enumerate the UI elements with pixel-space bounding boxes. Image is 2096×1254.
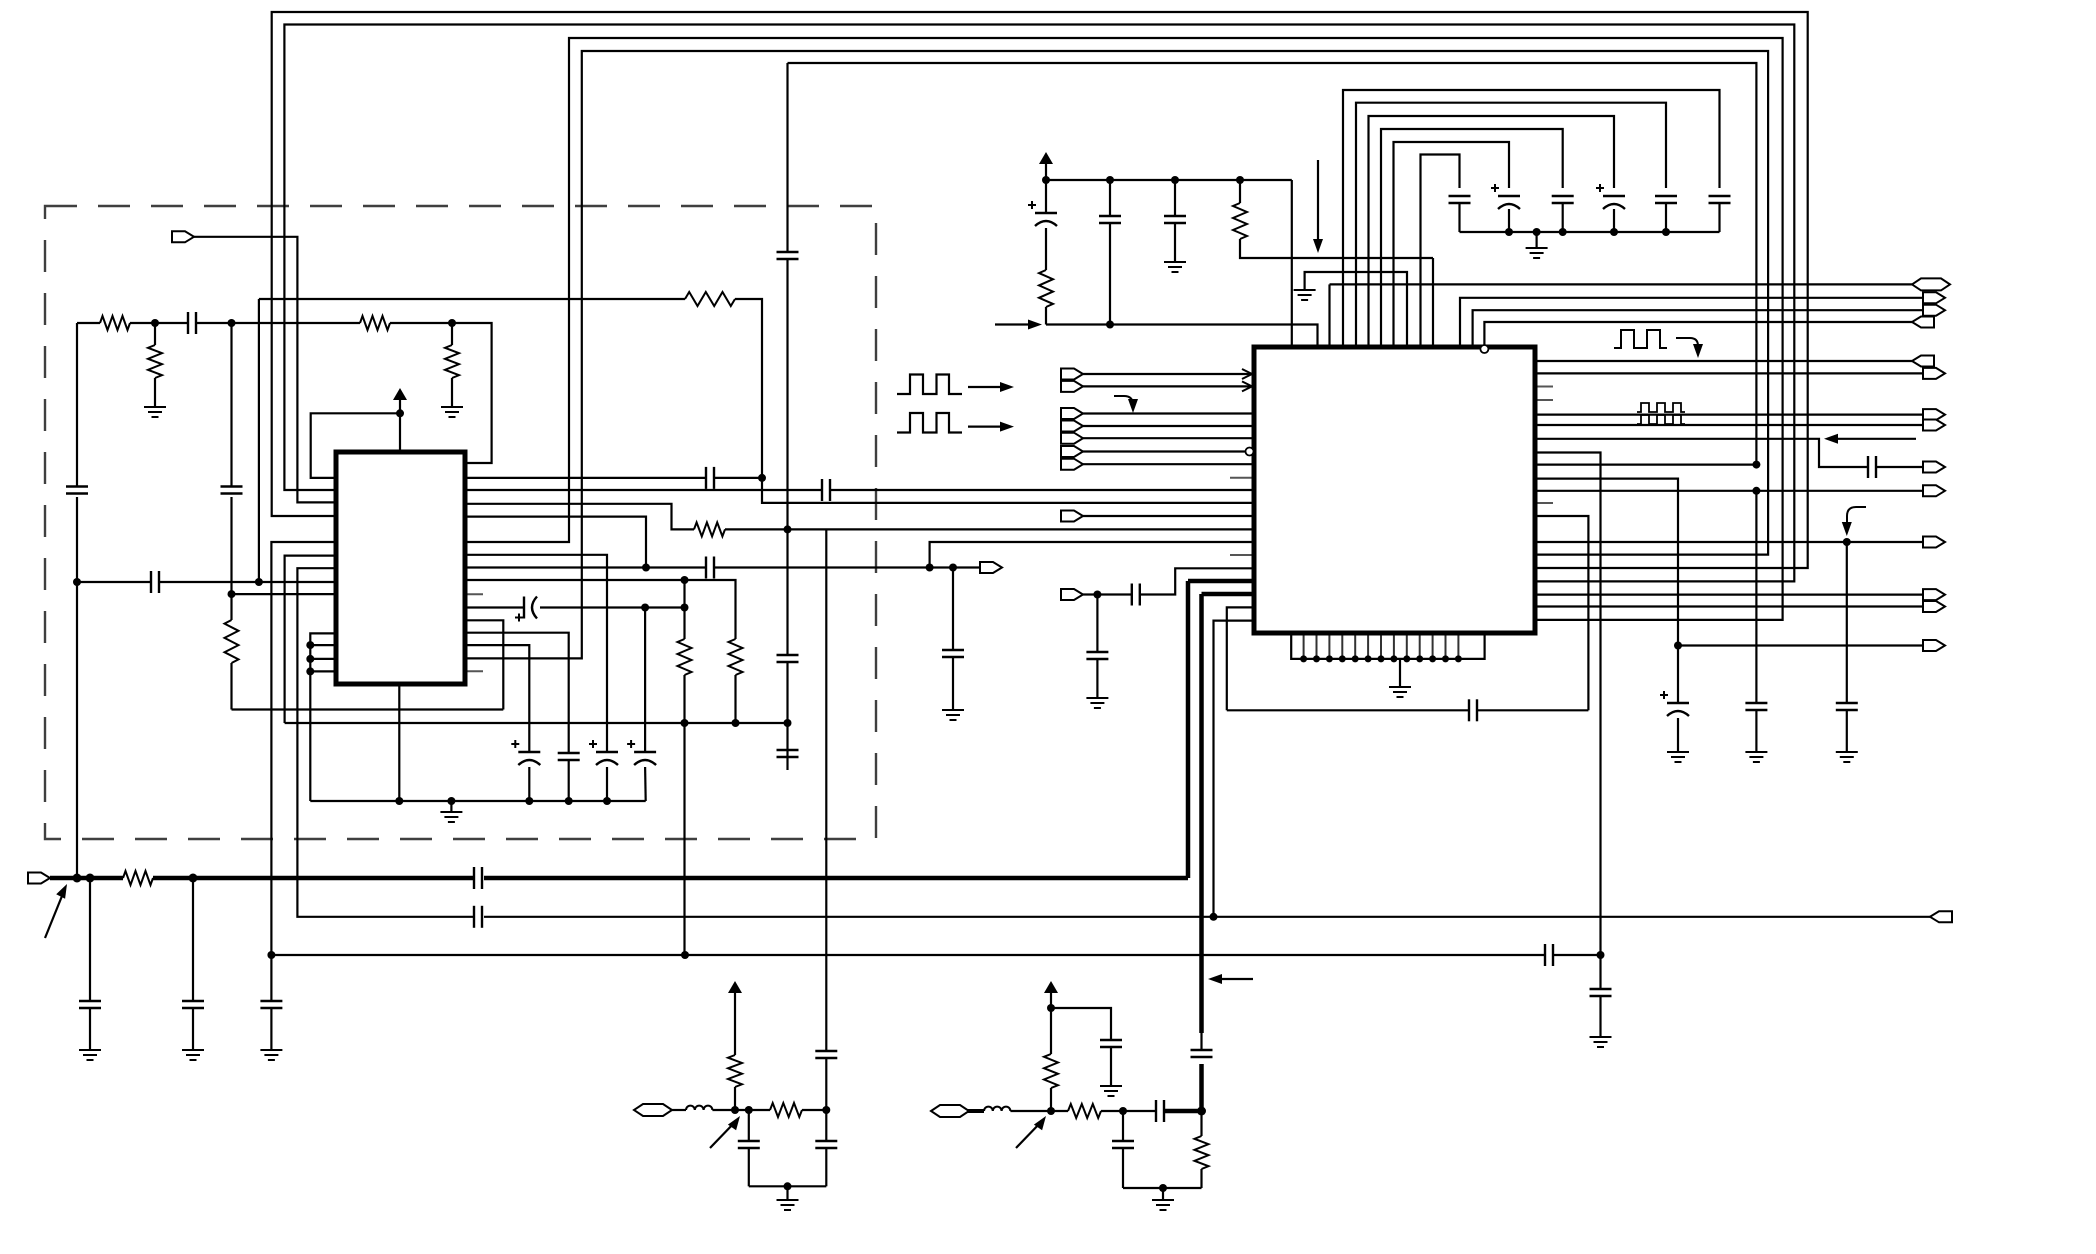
resistor R1046 bbox=[1039, 228, 1053, 325]
wire hex out bbox=[1330, 283, 1913, 285]
annotation squarewave4b bbox=[1637, 415, 1685, 424]
wire pin671 left bbox=[310, 670, 336, 672]
wire bbox=[1083, 385, 1254, 387]
resistor R1240 bbox=[1233, 180, 1433, 258]
node dot bbox=[1171, 176, 1179, 184]
wire cap loop b bbox=[1356, 103, 1666, 347]
wire cap gnd 193 bbox=[182, 878, 204, 1060]
capacitor C826b bbox=[815, 1141, 837, 1148]
wire power to IC1 bbox=[399, 413, 401, 452]
node dot bbox=[926, 564, 934, 572]
wire bbox=[671, 1109, 686, 1111]
node dot bbox=[447, 797, 455, 805]
connector flag main input bbox=[28, 873, 50, 884]
wire bbox=[1083, 450, 1246, 452]
IC2 left pin stub bbox=[1230, 554, 1254, 556]
ground bbox=[144, 407, 166, 417]
wire bbox=[528, 767, 530, 801]
capacitor Cc el bbox=[1596, 184, 1625, 232]
thick wire segment bbox=[484, 876, 1188, 881]
node dot bbox=[565, 797, 573, 805]
wire bbox=[1083, 437, 1254, 439]
resistor R_X2 bbox=[1044, 1008, 1058, 1111]
wire pin659 left bbox=[310, 658, 336, 660]
annotation arrow X2 bbox=[1016, 1116, 1046, 1148]
wire cap gnd 1600 bbox=[1590, 955, 1612, 1047]
wire out 297 bbox=[1460, 298, 1923, 347]
wire pin645 left bbox=[310, 644, 336, 646]
power arrow VCC1 bbox=[393, 388, 407, 413]
IC2 bottom pin bbox=[1378, 633, 1385, 662]
node dot bbox=[1610, 228, 1618, 236]
connector flag bbox=[1923, 462, 1945, 473]
capacitor C582 bbox=[151, 571, 159, 593]
wire loop3 IC1 pin to IC2 pin bbox=[465, 38, 1783, 620]
capacitor C467 bbox=[1868, 456, 1876, 478]
wire vertical 685 lower bbox=[683, 723, 685, 955]
resistor R_in1 bbox=[100, 316, 130, 330]
capacitor C826a bbox=[815, 1051, 837, 1058]
node dot bbox=[784, 1182, 792, 1190]
connector flag bbox=[1923, 640, 1945, 651]
wire cap gnd 90 bbox=[79, 878, 101, 1060]
wire IC2 top pin 1433 bbox=[1432, 258, 1434, 347]
wire bbox=[952, 657, 954, 710]
node dot bbox=[681, 719, 689, 727]
connector flag input bbox=[1061, 446, 1083, 457]
node dot bbox=[1505, 228, 1513, 236]
wire bottom bus bbox=[1291, 633, 1484, 659]
wire row 582 with cap bbox=[77, 581, 336, 583]
wire pin503 to resistor row bbox=[465, 504, 694, 530]
node dot bbox=[73, 578, 81, 586]
wire gnd rail X2 bbox=[1123, 1187, 1202, 1189]
IC2 right pin stub bbox=[1535, 386, 1553, 388]
thick wire bbox=[1164, 1109, 1202, 1114]
capacitor C_loop5 on vertical bbox=[777, 63, 799, 529]
capacitor C607b bbox=[589, 740, 618, 765]
node dot bbox=[1843, 538, 1851, 546]
wire row 299 bbox=[259, 299, 762, 478]
node dot bbox=[1533, 228, 1541, 236]
wire loop5 top rail bbox=[788, 63, 1757, 465]
connector flag bbox=[1923, 368, 1945, 379]
node dot bbox=[189, 874, 198, 883]
wire IC2 top pin 1329 bbox=[1328, 284, 1330, 347]
wire bbox=[1101, 1110, 1156, 1112]
connector hexflag X1 bbox=[634, 1104, 672, 1116]
wire pin555 left bbox=[285, 556, 336, 723]
connector flag bbox=[1923, 601, 1945, 612]
resistor R878 bbox=[123, 871, 153, 885]
connector flag bbox=[1923, 589, 1945, 600]
power arrow X2 bbox=[1044, 981, 1058, 1008]
ground bbox=[1294, 290, 1316, 300]
wire pin594 resistor bbox=[232, 593, 337, 595]
capacitor C710 bbox=[1469, 699, 1477, 721]
wire loop4 IC1 pin to IC2 pin bbox=[465, 51, 1768, 658]
wire pin568 left bbox=[297, 568, 474, 917]
thick wire segment bbox=[153, 876, 474, 881]
capacitor Cf bbox=[1449, 196, 1471, 232]
wire out 606 bbox=[1535, 605, 1923, 607]
annotation arrow left bbox=[1824, 434, 1916, 444]
annotation hook arrow bbox=[1114, 396, 1138, 413]
capacitor Cb bbox=[1655, 196, 1677, 232]
wire pin555 down bbox=[465, 555, 607, 752]
node dot bbox=[86, 874, 95, 883]
pin circle U2 left bbox=[1246, 448, 1254, 456]
node dot bbox=[1047, 1107, 1055, 1115]
IC2 bottom pin bbox=[1339, 633, 1346, 662]
wire flag to cap bbox=[1083, 568, 1254, 594]
wire bbox=[749, 1109, 827, 1111]
annotation arrow bbox=[968, 382, 1014, 392]
node dot bbox=[395, 797, 403, 805]
node dot bbox=[151, 319, 159, 327]
IC2 bottom pin bbox=[1429, 633, 1436, 662]
ground cap rail bbox=[1526, 232, 1548, 258]
pin circle U2 top bbox=[1480, 345, 1488, 353]
annotation arrow bbox=[968, 422, 1014, 432]
annotation arrow bbox=[45, 884, 67, 938]
thick vertical to IC2 bbox=[1186, 581, 1191, 878]
capacitor C478 bbox=[706, 467, 714, 489]
connector hexflag out bbox=[1912, 278, 1950, 290]
IC2 bottom pin bbox=[1365, 633, 1372, 662]
connector flag out1 bbox=[980, 562, 1002, 573]
wire row 607 electrolytic bbox=[465, 606, 685, 608]
connector flag input bbox=[1061, 433, 1083, 444]
node dot bbox=[681, 576, 689, 584]
connector flag input bbox=[1061, 421, 1083, 432]
wire out 478 jog bbox=[1535, 479, 1678, 703]
connector flag bbox=[1923, 420, 1945, 431]
node dot bbox=[1106, 321, 1114, 329]
wire cap gnd 1756 bbox=[1745, 491, 1767, 762]
capacitor Ca bbox=[1709, 196, 1731, 232]
annotation squarewave4a bbox=[1637, 403, 1685, 412]
node dot bbox=[1236, 176, 1244, 184]
node dot bbox=[525, 797, 533, 805]
thick wire bbox=[967, 1109, 984, 1113]
wire cap loop f bbox=[1421, 155, 1460, 348]
annotation hook arrow bbox=[1842, 507, 1866, 536]
capacitor C1046el bbox=[1028, 180, 1057, 226]
wire pin620 jog bbox=[1214, 621, 1255, 917]
wire out 373 bbox=[1535, 372, 1923, 374]
node dot bbox=[1752, 461, 1760, 469]
annotation hook arrow bbox=[1676, 338, 1703, 358]
wire pin633 down bbox=[465, 633, 569, 752]
ground X1 bbox=[777, 1186, 799, 1210]
node dot bbox=[306, 641, 314, 649]
node dot bbox=[306, 667, 314, 675]
wire vertical 645 bbox=[644, 608, 646, 753]
dashed analog-section boundary box bbox=[45, 206, 876, 839]
thick wire pin594 bbox=[1202, 594, 1255, 1033]
IC2 right pin stub bbox=[1535, 502, 1553, 504]
wire bbox=[644, 767, 647, 801]
IC2 bottom pin bbox=[1313, 633, 1320, 662]
wire left vertical x77 bbox=[76, 323, 78, 878]
wire row 916 bbox=[484, 916, 1930, 918]
connector flag input bbox=[1061, 459, 1083, 470]
wire bbox=[1083, 373, 1254, 375]
wire pin542 left bbox=[271, 542, 336, 955]
node dot bbox=[1662, 228, 1670, 236]
wire cap loop a bbox=[1343, 90, 1720, 347]
wire vertical 258 bbox=[258, 299, 260, 582]
resistor R_X2b bbox=[1068, 1104, 1101, 1118]
power arrow VCC2 bbox=[1039, 152, 1053, 180]
IC2 bottom pin bbox=[1455, 633, 1462, 662]
node dot bbox=[1093, 591, 1101, 599]
thick wire IC2 pin581 bbox=[1188, 579, 1254, 584]
IC2 bottom pin bbox=[1300, 633, 1307, 662]
wire out 425 bbox=[1535, 424, 1923, 426]
wire bbox=[1083, 463, 1254, 465]
wire out 452 long bbox=[1535, 453, 1601, 956]
resistor R_X1b bbox=[770, 1103, 802, 1117]
capacitor C953 bbox=[942, 650, 964, 657]
capacitor C788a bbox=[777, 655, 799, 662]
wire bbox=[712, 1109, 748, 1111]
wire out 310 bbox=[1473, 310, 1923, 347]
wire cap X1 bbox=[738, 1110, 760, 1186]
wire rail 324 bbox=[1046, 325, 1318, 348]
capacitor C567 bbox=[706, 557, 714, 579]
wire pin645 down bbox=[465, 645, 529, 752]
resistor R_term2 bbox=[445, 323, 459, 407]
wire bbox=[1876, 466, 1923, 468]
node dot bbox=[1674, 642, 1682, 650]
wire out 594 bbox=[1535, 593, 1923, 595]
wire cap gnd 1846 bbox=[1836, 542, 1858, 762]
wire row 709 bbox=[232, 708, 504, 710]
node dot bbox=[745, 1106, 753, 1114]
wire bbox=[1010, 1110, 1068, 1112]
node dot bbox=[228, 590, 236, 598]
wire row 710 bbox=[1227, 709, 1589, 711]
wire bbox=[1083, 412, 1254, 414]
node dot bbox=[73, 874, 82, 883]
resistor R735 bbox=[729, 639, 743, 723]
node dot bbox=[731, 1106, 739, 1114]
wire cap rail 232 bbox=[1460, 231, 1720, 233]
connector flag bbox=[1923, 537, 1945, 548]
wire power branch to pin bbox=[311, 413, 400, 478]
node dot bbox=[681, 604, 689, 612]
wire pin516 jog bbox=[465, 517, 646, 568]
wire bus row 490 IC1-IC2 bbox=[465, 489, 1254, 491]
wire IC2 top pin power bbox=[1291, 180, 1293, 347]
capacitor C529el bbox=[511, 740, 540, 765]
ground bottom bbox=[1389, 659, 1411, 697]
capacitor C77 bbox=[66, 487, 88, 494]
node dot bbox=[758, 474, 766, 482]
node dot bbox=[1047, 1004, 1055, 1012]
node dot bbox=[228, 319, 236, 327]
wire RC branch bbox=[1051, 1008, 1111, 1040]
thick wire segment bbox=[50, 876, 123, 881]
wire cap loop e bbox=[1394, 142, 1510, 347]
connector flag input bbox=[1061, 369, 1083, 380]
wire out 542 bbox=[1535, 541, 1923, 543]
wire loop2 IC1 pin to IC2 pin bbox=[284, 25, 1794, 582]
node dot bbox=[642, 564, 650, 572]
connector flag input bbox=[1061, 381, 1083, 392]
node dot bbox=[306, 655, 314, 663]
IC2 bottom pin bbox=[1326, 633, 1333, 662]
node dot bbox=[681, 951, 689, 959]
capacitor C231 bbox=[221, 487, 243, 494]
wire gnd hook bbox=[1305, 272, 1407, 347]
capacitor C594 bbox=[1132, 584, 1140, 606]
node dot bbox=[784, 525, 792, 533]
thick vertical bbox=[1199, 1064, 1204, 1111]
IC2 bottom pin bbox=[1403, 633, 1410, 662]
resistor R231 bbox=[225, 620, 239, 663]
wire vertical 231 bbox=[230, 323, 232, 710]
node dot bbox=[1197, 1107, 1206, 1116]
wire bbox=[1667, 718, 1689, 762]
annotation squarewave3 bbox=[1614, 330, 1667, 348]
wire from flag bbox=[194, 237, 336, 503]
wire rail 723 bbox=[285, 722, 788, 724]
annotation arrow input bbox=[995, 320, 1042, 330]
node dot bbox=[1042, 176, 1050, 184]
resistor R_X1 bbox=[728, 1055, 742, 1110]
pin arrowhead bbox=[1242, 381, 1252, 391]
connector flag input bbox=[1061, 408, 1083, 419]
node dot bbox=[1106, 176, 1114, 184]
ground bbox=[441, 407, 463, 417]
annotation arrow left2 bbox=[1208, 974, 1253, 984]
ground X2 bbox=[1152, 1188, 1174, 1210]
IC2 bottom pin bbox=[1390, 633, 1397, 662]
wire cap gnd 271 bbox=[260, 955, 282, 1060]
wire bbox=[1083, 425, 1254, 427]
node dot bbox=[1210, 913, 1218, 921]
connector flag input bbox=[1061, 511, 1083, 522]
node dot bbox=[1597, 951, 1605, 959]
annotation squarewave2 bbox=[897, 413, 962, 433]
capacitor C788b bbox=[777, 750, 799, 757]
wire bbox=[568, 761, 570, 801]
annotation arrow X1 bbox=[710, 1116, 740, 1148]
wire cap loop c bbox=[1369, 116, 1615, 347]
node dot bbox=[784, 719, 792, 727]
capacitor C878 bbox=[474, 867, 482, 889]
wire out 490 bbox=[1535, 490, 1923, 492]
connector hexflag X2 bbox=[931, 1105, 969, 1117]
IC2 bottom pin bbox=[1416, 633, 1423, 662]
capacitor C1110 bbox=[1099, 180, 1121, 325]
wire cap to ground bbox=[952, 568, 954, 651]
node dot bbox=[267, 951, 275, 959]
capacitor C_in1 bbox=[188, 312, 196, 334]
inductor L1 bbox=[686, 1106, 712, 1110]
capacitor C607el bbox=[515, 597, 537, 622]
IC2 bottom pin bbox=[1442, 633, 1449, 662]
connector flag reversed bbox=[1912, 317, 1934, 328]
ground bbox=[440, 801, 462, 822]
connector flag TP1 bbox=[172, 231, 194, 242]
node dot bbox=[1559, 228, 1567, 236]
wire power rail 180 bbox=[1046, 179, 1292, 181]
resistor R684 bbox=[678, 580, 692, 675]
connector flag bbox=[1923, 292, 1945, 303]
wire out row 645 bbox=[1678, 644, 1923, 646]
inductor L2 bbox=[984, 1107, 1010, 1111]
connector flag input bbox=[1061, 589, 1083, 600]
wire input filter row bbox=[77, 323, 492, 463]
connector flag bbox=[1923, 485, 1945, 496]
connector flag reversed bbox=[1912, 356, 1934, 367]
power arrow X1 bbox=[728, 981, 742, 1055]
capacitor Ce el bbox=[1491, 184, 1520, 232]
IC2 right pin stub bbox=[1535, 399, 1553, 401]
wire cap loop d bbox=[1381, 129, 1563, 347]
wire gnd rail X1 bbox=[749, 1185, 827, 1187]
wire bbox=[683, 675, 685, 723]
IC2 left pin stub bbox=[1230, 477, 1254, 479]
capacitor C568 bbox=[558, 753, 580, 760]
node dot bbox=[641, 604, 649, 612]
wire bbox=[1083, 515, 1254, 517]
wire pins to bus 310 bbox=[310, 633, 336, 801]
IC1 pin stub bbox=[465, 670, 483, 672]
IC2 bottom pin bbox=[1352, 633, 1359, 662]
wire IC2 pin 541 feed bbox=[930, 542, 1254, 568]
connector flag bbox=[1923, 305, 1945, 316]
resistor R299 bbox=[685, 292, 735, 306]
capacitor C645el bbox=[627, 740, 656, 765]
node dot bbox=[603, 797, 611, 805]
capacitor C916 bbox=[474, 906, 482, 928]
wire IC2 pin 502 feed bbox=[762, 478, 1254, 503]
node dot bbox=[732, 719, 740, 727]
wire cap gnd 1097 bbox=[1086, 595, 1108, 709]
resistor R529 bbox=[694, 522, 725, 536]
IC1 pin stub bbox=[465, 593, 483, 595]
ground bbox=[942, 710, 964, 720]
capacitor C1678el bbox=[1660, 691, 1689, 716]
node dot bbox=[396, 409, 404, 417]
node dot bbox=[1752, 487, 1760, 495]
annotation squarewave1 bbox=[897, 375, 962, 395]
node dot bbox=[448, 319, 456, 327]
capacitor C955 bbox=[1545, 944, 1553, 966]
pin arrowhead bbox=[1242, 369, 1252, 379]
wire vertical 826 bbox=[825, 530, 827, 1186]
wire out 464 bbox=[1535, 464, 1756, 466]
wire rail 801 bbox=[310, 800, 645, 802]
capacitor Cd bbox=[1552, 196, 1574, 232]
wire out 516 jog bbox=[1535, 516, 1588, 710]
IC U1 bbox=[336, 452, 465, 684]
capacitor C1175 bbox=[1164, 180, 1186, 272]
capacitor C1111 bbox=[1100, 1040, 1122, 1096]
IC U2 bbox=[1254, 347, 1535, 633]
node dot bbox=[822, 1106, 830, 1114]
wire row 580 resistors bbox=[465, 580, 736, 639]
wire cap X2 bbox=[1112, 1111, 1134, 1188]
annotation arrow down bbox=[1313, 160, 1323, 253]
wire pin607 jog bbox=[1227, 607, 1254, 710]
wire row 567 to flag bbox=[465, 566, 980, 568]
